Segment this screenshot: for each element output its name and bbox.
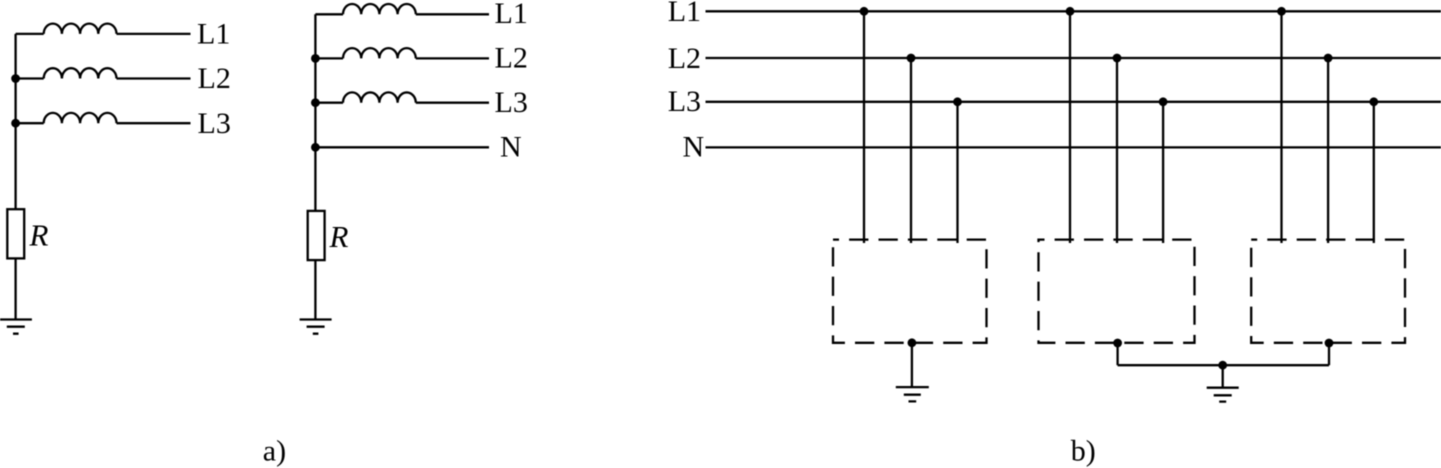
wire branch L3 (a2) — [315, 102, 343, 104]
wire junction to ground — [1222, 365, 1224, 388]
inductor L2 (a1) — [44, 68, 117, 78]
node box 3 ground tap — [1325, 339, 1334, 348]
wire branch L3 (a1) — [16, 122, 44, 124]
node L3 tap load 3 — [1369, 97, 1378, 106]
svg-text:L1: L1 — [495, 0, 528, 30]
wire drop L3 to load 1 — [956, 102, 958, 243]
wire box 3 down — [1328, 343, 1330, 365]
wire L2 to label (a1) — [117, 77, 191, 79]
wire branch L2 (a2) — [315, 57, 343, 59]
resistor R (a1) — [7, 209, 24, 258]
wire line L3 (b) — [706, 101, 1441, 103]
inductor L1 (a1) — [44, 24, 117, 34]
wire resistor to ground (a2) — [314, 260, 316, 319]
wire resistor to ground (a1) — [14, 258, 16, 319]
wire bus a) first circuit — [14, 34, 16, 209]
node L2 tap load 3 — [1324, 54, 1333, 63]
node L2 junction (a1) — [11, 74, 20, 83]
svg-text:R: R — [329, 219, 349, 254]
svg-text:R: R — [29, 218, 49, 253]
wire drop L1 to load 1 — [863, 11, 865, 243]
svg-text:L1: L1 — [668, 0, 701, 28]
inductor L3 (a2) — [343, 92, 416, 102]
node L1 tap load 3 — [1277, 7, 1286, 16]
node box 2 ground tap — [1113, 339, 1122, 348]
wire line L1 (b) — [706, 10, 1441, 12]
load box 1 (dashed) — [833, 240, 987, 343]
wire drop L2 to load 3 — [1327, 58, 1329, 243]
svg-text:N: N — [500, 131, 522, 164]
ground (a2) — [300, 320, 332, 334]
svg-text:L2: L2 — [198, 62, 231, 95]
wire L1 to label (a1) — [117, 33, 191, 35]
wire drop L1 to load 2 — [1069, 11, 1071, 243]
resistor R (a2) — [308, 211, 325, 260]
ground (box 1) — [896, 387, 929, 401]
inductor L2 (a2) — [343, 48, 416, 58]
node L3 tap load 2 — [1159, 97, 1168, 106]
wire box 1 to ground — [911, 343, 913, 387]
node N junction (a2) — [311, 143, 320, 152]
wire line L2 (b) — [706, 57, 1441, 59]
wire branch L1 (a1) — [16, 33, 44, 35]
wire line N (b) — [706, 146, 1441, 148]
node box 1 ground tap — [908, 338, 917, 347]
wire L2 to label (a2) — [416, 57, 489, 59]
wire L3 to label (a1) — [117, 122, 191, 124]
wire L1 to label (a2) — [416, 13, 489, 15]
wire bus a) second circuit — [314, 14, 316, 211]
node L1 tap load 1 — [860, 7, 869, 16]
svg-text:L1: L1 — [197, 18, 230, 51]
wire drop L1 to load 3 — [1280, 11, 1282, 243]
svg-text:L2: L2 — [495, 42, 528, 75]
node L2 tap load 2 — [1113, 54, 1122, 63]
wire drop L3 to load 2 — [1162, 102, 1164, 243]
svg-text:L2: L2 — [668, 42, 701, 75]
svg-text:L3: L3 — [668, 85, 701, 118]
wire drop L3 to load 3 — [1373, 102, 1375, 243]
load box 2 (dashed) — [1039, 240, 1195, 343]
svg-text:L3: L3 — [495, 86, 528, 119]
wire branch N (a2) — [315, 146, 489, 148]
node L3 junction (a1) — [11, 119, 20, 128]
node L2 junction (a2) — [311, 54, 320, 63]
svg-text:b): b) — [1071, 435, 1096, 468]
wire branch L1 (a2) — [315, 13, 343, 15]
node L3 junction (a2) — [311, 98, 320, 107]
inductor L3 (a1) — [44, 113, 117, 123]
wire L3 to label (a2) — [416, 102, 489, 104]
node L1 tap load 2 — [1066, 7, 1075, 16]
wire drop L2 to load 2 — [1116, 58, 1118, 243]
svg-text:L3: L3 — [198, 107, 231, 140]
ground (a1) — [0, 320, 32, 334]
wire drop L2 to load 1 — [910, 58, 912, 243]
inductor L1 (a2) — [343, 4, 416, 14]
svg-text:a): a) — [263, 435, 286, 468]
svg-text:N: N — [683, 130, 705, 163]
wire branch L2 (a1) — [16, 77, 44, 79]
wire joining boxes 2 and 3 — [1118, 364, 1329, 366]
node L3 tap load 1 — [953, 97, 962, 106]
wire box 2 down — [1116, 343, 1118, 365]
ground (boxes 2-3) — [1207, 388, 1239, 402]
node L2 tap load 1 — [907, 54, 916, 63]
load box 3 (dashed) — [1251, 240, 1405, 343]
node ground junction boxes 2-3 — [1218, 361, 1227, 370]
